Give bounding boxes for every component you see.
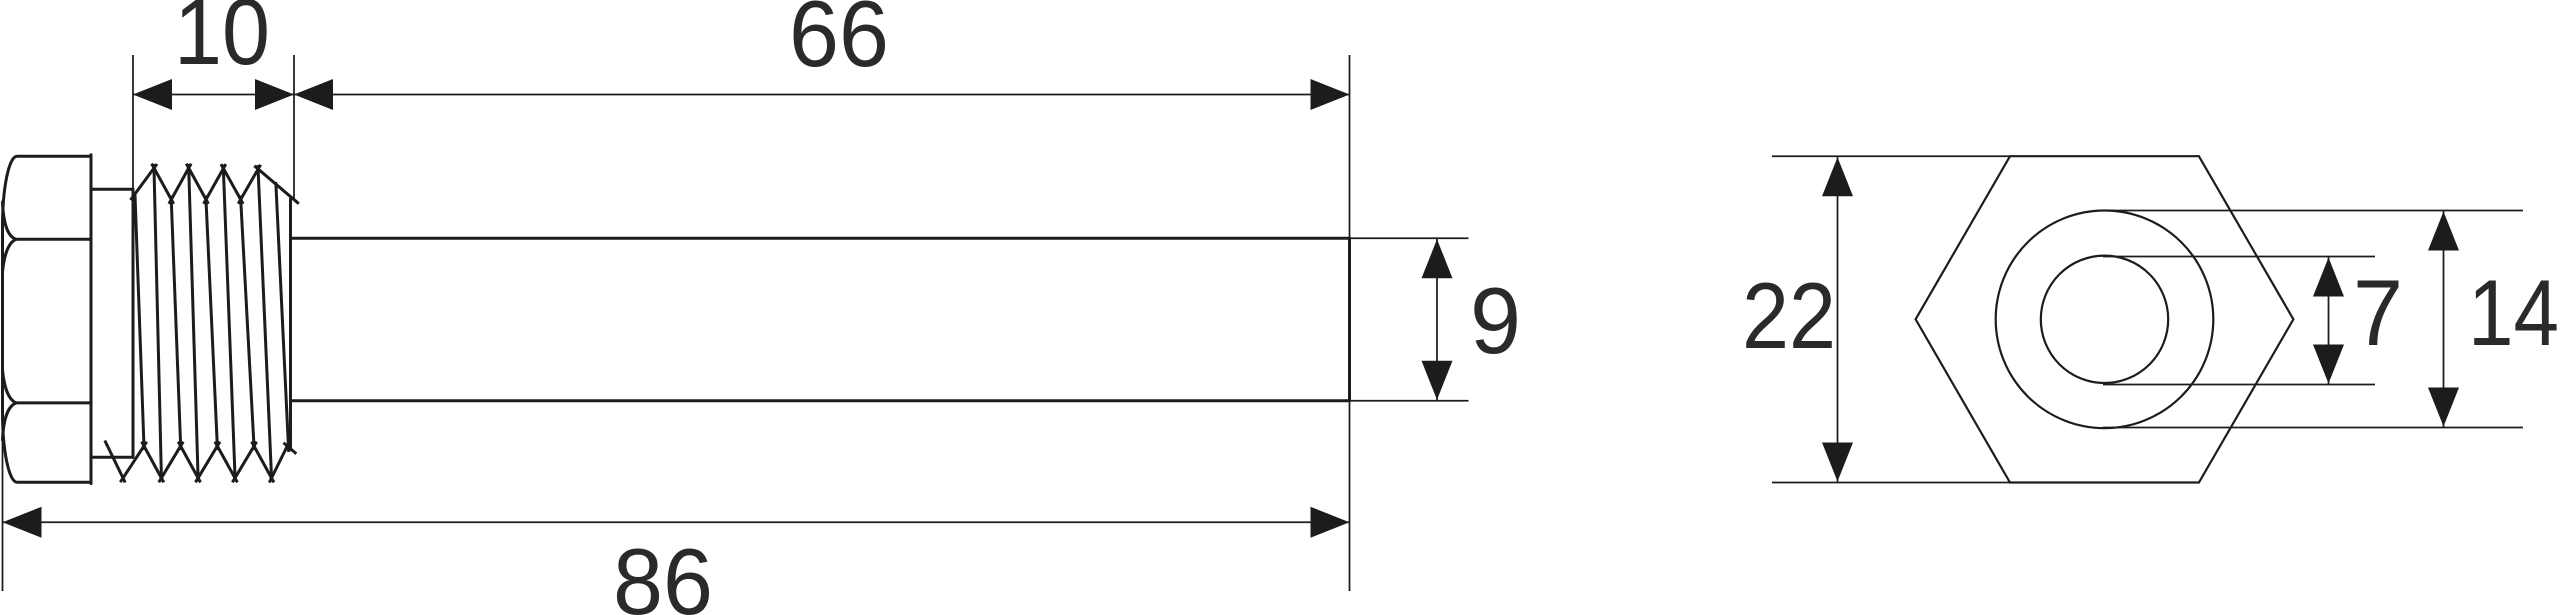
svg-text:66: 66 bbox=[789, 0, 889, 86]
svg-text:22: 22 bbox=[1742, 263, 1836, 368]
svg-text:10: 10 bbox=[174, 0, 270, 84]
svg-text:7: 7 bbox=[2353, 260, 2403, 365]
svg-text:86: 86 bbox=[613, 529, 713, 615]
svg-text:9: 9 bbox=[1470, 268, 1521, 373]
svg-text:14: 14 bbox=[2468, 260, 2559, 365]
